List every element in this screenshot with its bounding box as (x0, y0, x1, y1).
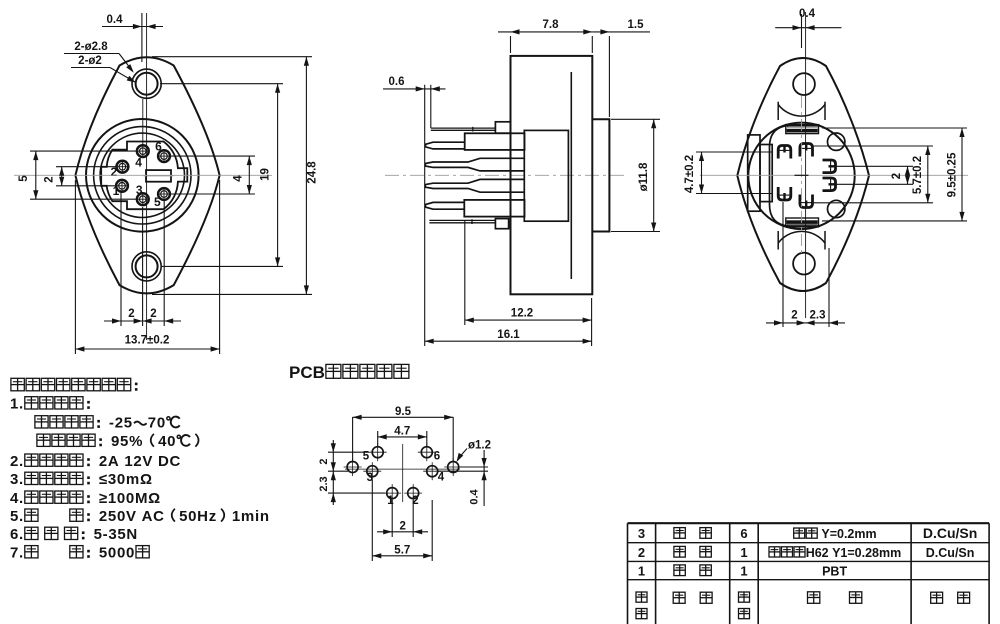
pcb hole right (444, 458, 462, 476)
front view pin column line (142, 99, 144, 146)
svg-text:2: 2 (44, 176, 56, 182)
dim 13.7 (75, 180, 219, 354)
svg-text:2: 2 (638, 545, 645, 560)
dim 2 pcb-bottom (377, 500, 428, 537)
side view bottom flat pin (429, 219, 495, 224)
rear view bottom hole (793, 253, 815, 275)
svg-text:5.7: 5.7 (394, 545, 410, 557)
front view pin number 6 (155, 140, 162, 154)
svg-text:1: 1 (387, 495, 394, 507)
front view shield ring outer (94, 127, 191, 224)
pcb hole 1 (383, 484, 401, 502)
label 2-o2.8 (64, 41, 134, 73)
svg-text:3: 3 (638, 526, 645, 541)
rear view small circle top (828, 133, 845, 150)
svg-text:4: 4 (135, 155, 142, 169)
rear view left tab outer (748, 135, 760, 211)
front view key slot (144, 170, 174, 182)
rear view terminal top-center (800, 144, 813, 157)
front view horizontal centerline (14, 174, 272, 176)
svg-text:≤30mΩ: ≤30mΩ (99, 471, 153, 488)
svg-text:5.: 5. (10, 508, 24, 525)
svg-text:4.7±0.2: 4.7±0.2 (684, 155, 696, 193)
svg-text:4: 4 (233, 175, 245, 182)
svg-text:2-ø2.8: 2-ø2.8 (74, 41, 108, 53)
pcb hole number 6 (434, 451, 440, 463)
svg-text:50Hz: 50Hz (179, 508, 217, 525)
svg-text:ø1.2: ø1.2 (468, 440, 491, 452)
svg-text:2: 2 (399, 521, 405, 533)
side view bottom tab (495, 219, 508, 229)
pcb hole 5 (369, 443, 387, 461)
dim 2 2 front-bottom (104, 192, 181, 326)
pcb hole left (344, 458, 362, 476)
side view pin row3 (425, 179, 524, 192)
label 2-o2 (71, 55, 136, 83)
front view shield opening (101, 142, 187, 210)
svg-text:≥100MΩ: ≥100MΩ (99, 490, 161, 507)
pcb hole number 1 (387, 495, 394, 507)
svg-text:19: 19 (260, 168, 272, 181)
pcb hole 6 (418, 443, 436, 461)
front view top mounting hole (132, 69, 161, 98)
dim 2 front-left (44, 167, 117, 186)
svg-text:0.4: 0.4 (107, 14, 124, 26)
dim 1.5 (592, 19, 650, 117)
svg-text:12.2: 12.2 (511, 308, 533, 320)
dim 24.8 (152, 57, 319, 295)
front view pin 2 contact (117, 161, 129, 173)
rear view vertical centerline (805, 12, 807, 318)
front view pin number 3 (136, 183, 143, 197)
dim 4.7 rear (684, 152, 772, 194)
rear view top knurl (786, 125, 819, 134)
dim 5.7 pcb (372, 480, 432, 561)
front view shield ring inner (100, 133, 184, 217)
svg-text:0.4: 0.4 (469, 488, 481, 504)
dim 0.4 rear (775, 8, 841, 48)
rear view flange outline (737, 58, 869, 291)
svg-text:9.5: 9.5 (395, 406, 412, 418)
dim 2 rear (836, 166, 913, 184)
rear view horizontal centerline (700, 174, 968, 176)
rear view insert body (770, 125, 821, 226)
pcb hole number 4 (438, 472, 445, 484)
svg-text:1.5: 1.5 (628, 19, 645, 31)
side view barrel (592, 119, 609, 231)
bom table row 1 (638, 563, 848, 578)
dim 9.5 pcb (353, 406, 454, 462)
svg-text:4.7: 4.7 (394, 426, 410, 438)
dim 4 front-right (170, 156, 255, 194)
dim 19 (160, 84, 283, 267)
pcb hole 2 (404, 484, 422, 502)
rear view terminal bottom-left (778, 187, 791, 200)
pcb hole 4 (423, 462, 441, 480)
side view insert block (524, 130, 568, 221)
rear view small circle bottom (828, 200, 845, 217)
pcb hole number 2 (412, 495, 418, 507)
rear view lower cutout (778, 231, 825, 250)
front view vertical centerline (146, 13, 148, 340)
svg-text:6.: 6. (10, 526, 24, 543)
pcb layout title (289, 363, 409, 382)
bom table grid (628, 523, 990, 624)
side view pin row2 (425, 158, 524, 171)
front view bottom mounting hole (132, 252, 161, 281)
front view pin number 1 (113, 184, 120, 198)
dim 7.8 (498, 19, 592, 53)
rear view left tab inner (760, 145, 772, 202)
rear view terminal right-upper (823, 160, 836, 173)
rear view connector centerline (801, 96, 803, 255)
svg-text:3: 3 (136, 183, 143, 197)
front view pin number 4 (135, 155, 142, 169)
svg-text:5-35N: 5-35N (94, 526, 138, 543)
svg-text:70: 70 (148, 415, 166, 432)
svg-text:9.5±0.25: 9.5±0.25 (947, 152, 959, 197)
svg-text:5.7±0.2: 5.7±0.2 (912, 156, 924, 194)
dim 0.4 front (102, 13, 163, 62)
svg-text:2.: 2. (10, 453, 24, 470)
svg-text:5000: 5000 (99, 545, 135, 562)
rear view bottom knurl (786, 218, 819, 227)
rear view upper cutout (778, 102, 825, 120)
svg-text:5: 5 (154, 195, 161, 209)
svg-text:7.8: 7.8 (543, 19, 560, 31)
svg-text:1: 1 (638, 563, 645, 578)
dim 0.4 pcb (438, 450, 488, 506)
bom table header (636, 592, 970, 619)
svg-text:1min: 1min (232, 508, 270, 525)
dim 16.1 (425, 298, 592, 346)
front view pin 5 contact (158, 188, 170, 200)
dim 0.6 (383, 76, 446, 346)
svg-text:4: 4 (438, 472, 445, 484)
svg-text:1: 1 (740, 563, 747, 578)
front view pin 6 contact (158, 150, 170, 162)
svg-text:6: 6 (434, 451, 440, 463)
front view barrel circle (86, 119, 199, 232)
svg-text:13.7±0.2: 13.7±0.2 (125, 335, 170, 347)
front view pin 1 contact (116, 180, 128, 192)
svg-text:D.Cu/Sn: D.Cu/Sn (926, 546, 975, 560)
dim 2 2.3 rear (766, 202, 845, 327)
side view internal edge (570, 72, 572, 279)
pcb hole number 3 (367, 472, 373, 484)
svg-text:PBT: PBT (822, 564, 847, 578)
svg-text:2: 2 (891, 173, 903, 179)
technical requirements text (10, 378, 270, 561)
rear view barrel circle (748, 123, 854, 229)
side view flange plate (511, 56, 593, 294)
svg-text:16.1: 16.1 (497, 329, 520, 341)
svg-text:1.: 1. (10, 396, 24, 413)
front view pin 4 contact (137, 145, 149, 157)
pcb hole number 5 (363, 451, 370, 463)
rear view center mark (795, 174, 809, 176)
front view pin number 5 (154, 195, 161, 209)
svg-text:2.3: 2.3 (318, 476, 330, 491)
rear view top hole (793, 73, 815, 95)
pcb centerline vertical (402, 444, 404, 502)
side view pin row1 (426, 133, 525, 150)
svg-text:2.3: 2.3 (810, 310, 826, 322)
svg-text:2-ø2: 2-ø2 (78, 55, 102, 67)
svg-text:2: 2 (791, 310, 797, 322)
svg-text:H62 Y1=0.28mm: H62 Y1=0.28mm (806, 546, 902, 560)
rear view terminal top-left (778, 146, 791, 159)
dim 12.2 (465, 220, 592, 325)
pcb row line (345, 468, 460, 470)
front view pin 3 contact (137, 193, 149, 205)
svg-text:2A 12V DC: 2A 12V DC (99, 453, 181, 470)
svg-text:2: 2 (150, 308, 156, 320)
svg-text:Y=0.2mm: Y=0.2mm (818, 527, 877, 541)
svg-text:PCB: PCB (289, 363, 325, 382)
pcb hole 3 (363, 462, 381, 480)
svg-text:2: 2 (318, 458, 330, 464)
dim o11.8 (611, 119, 660, 231)
svg-text:7.: 7. (10, 545, 24, 562)
label o1.2 pcb (457, 440, 492, 463)
dim 4.7 pcb (378, 426, 427, 447)
svg-text:ø11.8: ø11.8 (638, 162, 650, 191)
svg-text:2: 2 (110, 165, 117, 179)
svg-text:4.: 4. (10, 490, 24, 507)
svg-text:5: 5 (18, 175, 30, 182)
svg-text:24.8: 24.8 (307, 161, 319, 184)
dim 5.7 rear (813, 146, 933, 203)
svg-text:-25: -25 (109, 415, 133, 432)
dim 5 front (18, 151, 137, 199)
bom table row 3 (638, 525, 977, 541)
bom table row 2 (638, 545, 975, 560)
svg-text:0.6: 0.6 (389, 76, 405, 88)
svg-text:6: 6 (155, 140, 162, 154)
side view centerline (385, 174, 625, 176)
svg-text:1: 1 (740, 545, 747, 560)
side view top flat pin (431, 127, 496, 132)
dim 2 2.3 pcb-left (318, 440, 385, 505)
rear view terminal bottom-center (800, 195, 813, 208)
svg-text:2: 2 (128, 308, 134, 320)
rear view terminal right-lower (823, 178, 836, 191)
svg-text:D.Cu/Sn: D.Cu/Sn (923, 525, 977, 541)
front view pin number 2 (110, 165, 117, 179)
svg-text:250V AC: 250V AC (99, 508, 165, 525)
svg-text:3.: 3. (10, 471, 24, 488)
svg-text:6: 6 (740, 526, 747, 541)
svg-text:40: 40 (158, 433, 176, 450)
side view pin row4 (425, 200, 524, 217)
front view flange outline (75, 57, 219, 293)
dim 9.5 rear (822, 128, 967, 221)
svg-text:95%: 95% (111, 433, 143, 450)
side view top tab (495, 122, 510, 133)
